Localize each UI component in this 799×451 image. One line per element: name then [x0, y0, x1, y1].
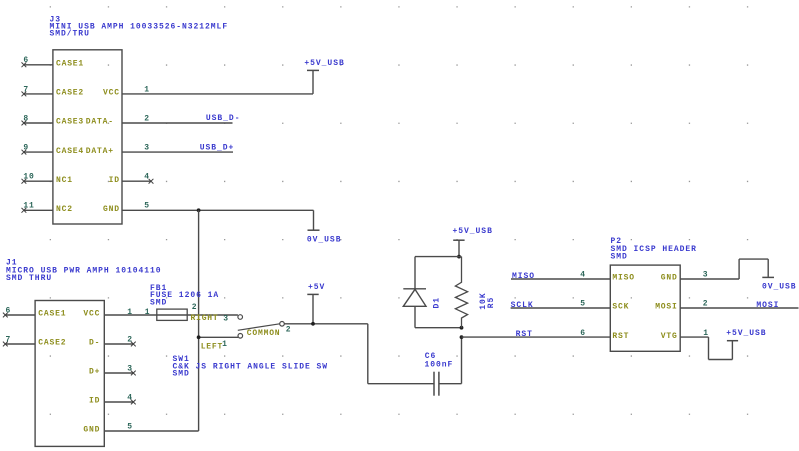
- svg-text:SCK: SCK: [612, 303, 629, 312]
- power symbol +5V_USB (mid): [453, 227, 493, 256]
- ground symbol 0V_USB (right): [762, 277, 797, 291]
- P2 pin labels: [612, 274, 677, 341]
- header P2 body: [610, 265, 680, 351]
- svg-text:1: 1: [145, 308, 151, 317]
- svg-text:100nF: 100nF: [425, 361, 454, 370]
- svg-text:GND: GND: [103, 205, 120, 214]
- svg-text:4: 4: [580, 271, 586, 280]
- fuse FB1 title: [150, 284, 219, 308]
- connector J3 title: [50, 16, 229, 39]
- svg-text:SMD: SMD: [173, 369, 190, 378]
- SW1 lever: [238, 324, 280, 331]
- wire USB_D+ from J3 pin3: [122, 151, 233, 153]
- SW1 pin numbers 3,2,1: [222, 315, 291, 350]
- capacitor C6 labels: [425, 352, 454, 370]
- P2 left pin numbers 4,5,6: [580, 271, 586, 338]
- SW1 COMMON contact: [280, 322, 285, 327]
- J1 left pin stubs with X marks: [3, 313, 35, 347]
- SW1 RIGHT contact: [238, 315, 243, 320]
- svg-text:RIGHT: RIGHT: [191, 314, 219, 323]
- J1 left pin numbers 6,7: [6, 306, 12, 344]
- resistor R5: [455, 257, 496, 328]
- wire SW1 COMMON to +5V node: [284, 323, 368, 325]
- svg-text:3: 3: [144, 144, 150, 153]
- svg-text:4: 4: [144, 173, 150, 182]
- junction LEFT wire on 0V bus: [197, 335, 201, 339]
- power symbol +5V_USB (top): [304, 59, 344, 71]
- svg-text:NC2: NC2: [56, 205, 73, 214]
- svg-text:SMD: SMD: [150, 298, 167, 307]
- switch SW1 title: [173, 355, 329, 378]
- svg-text:ID: ID: [109, 176, 120, 185]
- svg-text:MISO: MISO: [612, 274, 634, 283]
- svg-text:GND: GND: [661, 274, 678, 283]
- connector J1 title: [6, 259, 162, 283]
- svg-text:VCC: VCC: [83, 310, 100, 319]
- wire top of D1 to top of R5: [415, 256, 462, 258]
- svg-text:1: 1: [144, 85, 150, 94]
- wire USB_D- from J3 pin2: [122, 122, 233, 124]
- svg-text:2: 2: [144, 114, 150, 123]
- junction RST node: [460, 335, 464, 339]
- svg-text:1: 1: [222, 340, 228, 349]
- svg-text:LEFT: LEFT: [201, 343, 223, 352]
- wire J3 VCC pin1 to +5V_USB: [122, 93, 313, 95]
- svg-text:GND: GND: [83, 426, 100, 435]
- junction on GND wire at vertical bus: [197, 208, 201, 212]
- svg-text:SMD: SMD: [611, 253, 628, 262]
- wire 0V bus to SW1 LEFT: [199, 336, 238, 338]
- wire J1 VCC pin1 through fuse to switch RIGHT: [104, 314, 238, 316]
- svg-text:VCC: VCC: [103, 89, 120, 98]
- J3 left pin numbers 6-11: [23, 56, 34, 211]
- svg-text:MISO: MISO: [512, 272, 535, 281]
- svg-text:5: 5: [127, 422, 133, 431]
- capacitor C6 plates: [434, 372, 439, 396]
- svg-text:+5V_USB: +5V_USB: [726, 329, 766, 338]
- svg-text:D1: D1: [433, 297, 442, 309]
- svg-text:CASE1: CASE1: [38, 310, 66, 319]
- vertical 0V wire J3-GND down to J1-GND: [198, 210, 200, 431]
- svg-text:USB_D+: USB_D+: [200, 144, 235, 153]
- fuse pin numbers 1,2: [145, 303, 198, 317]
- wire C6 right plate to RST node: [439, 383, 462, 385]
- ground symbol 0V_USB (top): [307, 230, 342, 244]
- SW1 LEFT contact: [238, 334, 243, 339]
- svg-text:RST: RST: [516, 330, 533, 339]
- junction D1/R5 bottom: [460, 326, 464, 330]
- J3 right pin numbers 1-5: [144, 85, 150, 210]
- svg-text:+5V_USB: +5V_USB: [453, 227, 493, 236]
- wire P2 GND pin3 to 0V_USB: [680, 278, 739, 280]
- svg-text:USB_D-: USB_D-: [206, 114, 241, 123]
- diode D1: [403, 257, 441, 328]
- wire P2 MOSI pin2 to right edge: [680, 307, 798, 309]
- P2 right pin numbers 3,2,1: [703, 271, 709, 338]
- svg-text:C&K JS RIGHT ANGLE SLIDE SW: C&K JS RIGHT ANGLE SLIDE SW: [173, 362, 329, 371]
- wire +5V node down to C6: [367, 324, 369, 384]
- svg-text:0V_USB: 0V_USB: [762, 283, 797, 292]
- svg-text:SCLK: SCLK: [511, 301, 534, 310]
- svg-text:CASE3: CASE3: [56, 118, 84, 127]
- J3 ID pin4 stub with X: [122, 180, 151, 182]
- svg-text:+5V: +5V: [308, 283, 325, 292]
- svg-text:SMD/TRU: SMD/TRU: [50, 30, 90, 39]
- connector J1 body: [35, 301, 104, 447]
- J3 pin labels: [56, 60, 120, 215]
- svg-text:3: 3: [703, 271, 709, 280]
- power symbol +5V: [307, 283, 325, 324]
- svg-text:VTG: VTG: [661, 332, 678, 341]
- wire SCLK to P2 pin5: [511, 307, 611, 309]
- J3 left pin stubs with unconnected X marks: [22, 62, 53, 212]
- svg-text:CASE2: CASE2: [56, 89, 84, 98]
- svg-text:MOSI: MOSI: [756, 301, 779, 310]
- fuse FB1 body: [157, 309, 187, 320]
- J1 unconnected stubs pins 2,3,4: [104, 342, 135, 405]
- svg-text:D+: D+: [89, 368, 100, 377]
- junction +5V on common wire: [311, 322, 315, 326]
- wire J3 GND pin5 to 0V_USB: [122, 209, 314, 211]
- svg-text:DATA-: DATA-: [86, 118, 114, 127]
- wire P2 VTG pin1 to +5V_USB: [680, 336, 708, 338]
- wire bottom of D1 to bottom of R5: [415, 327, 462, 329]
- svg-text:2: 2: [286, 326, 292, 335]
- svg-text:NC1: NC1: [56, 176, 73, 185]
- svg-text:SMD THRU: SMD THRU: [6, 274, 52, 283]
- svg-text:ID: ID: [89, 397, 100, 406]
- wire J1 GND pin5 to 0V bus: [104, 430, 198, 432]
- connector J3 body: [53, 50, 122, 224]
- header P2 title: [611, 237, 697, 262]
- power symbol +5V_USB (right): [726, 329, 766, 341]
- svg-text:3: 3: [223, 315, 229, 324]
- svg-text:DATA+: DATA+: [86, 147, 114, 156]
- junction +5V_USB on D1/R5 top wire: [457, 255, 461, 259]
- SW1 contact labels: [191, 314, 281, 352]
- svg-text:2: 2: [192, 303, 198, 312]
- wire RST node to P2 pin6: [462, 336, 611, 338]
- svg-text:CASE1: CASE1: [56, 60, 84, 69]
- svg-text:0V_USB: 0V_USB: [307, 236, 342, 245]
- wire MISO to P2 pin4: [511, 278, 610, 280]
- J1 right pin numbers 1-5: [127, 308, 133, 431]
- svg-text:5: 5: [144, 202, 150, 211]
- svg-text:CASE4: CASE4: [56, 147, 84, 156]
- svg-text:D-: D-: [89, 339, 100, 348]
- svg-text:RST: RST: [612, 332, 629, 341]
- svg-text:CASE2: CASE2: [38, 339, 66, 348]
- svg-text:R5: R5: [487, 297, 496, 309]
- svg-text:MOSI: MOSI: [655, 303, 677, 312]
- J1 pin labels: [38, 310, 100, 435]
- svg-text:+5V_USB: +5V_USB: [304, 59, 344, 68]
- svg-text:COMMON: COMMON: [247, 329, 281, 338]
